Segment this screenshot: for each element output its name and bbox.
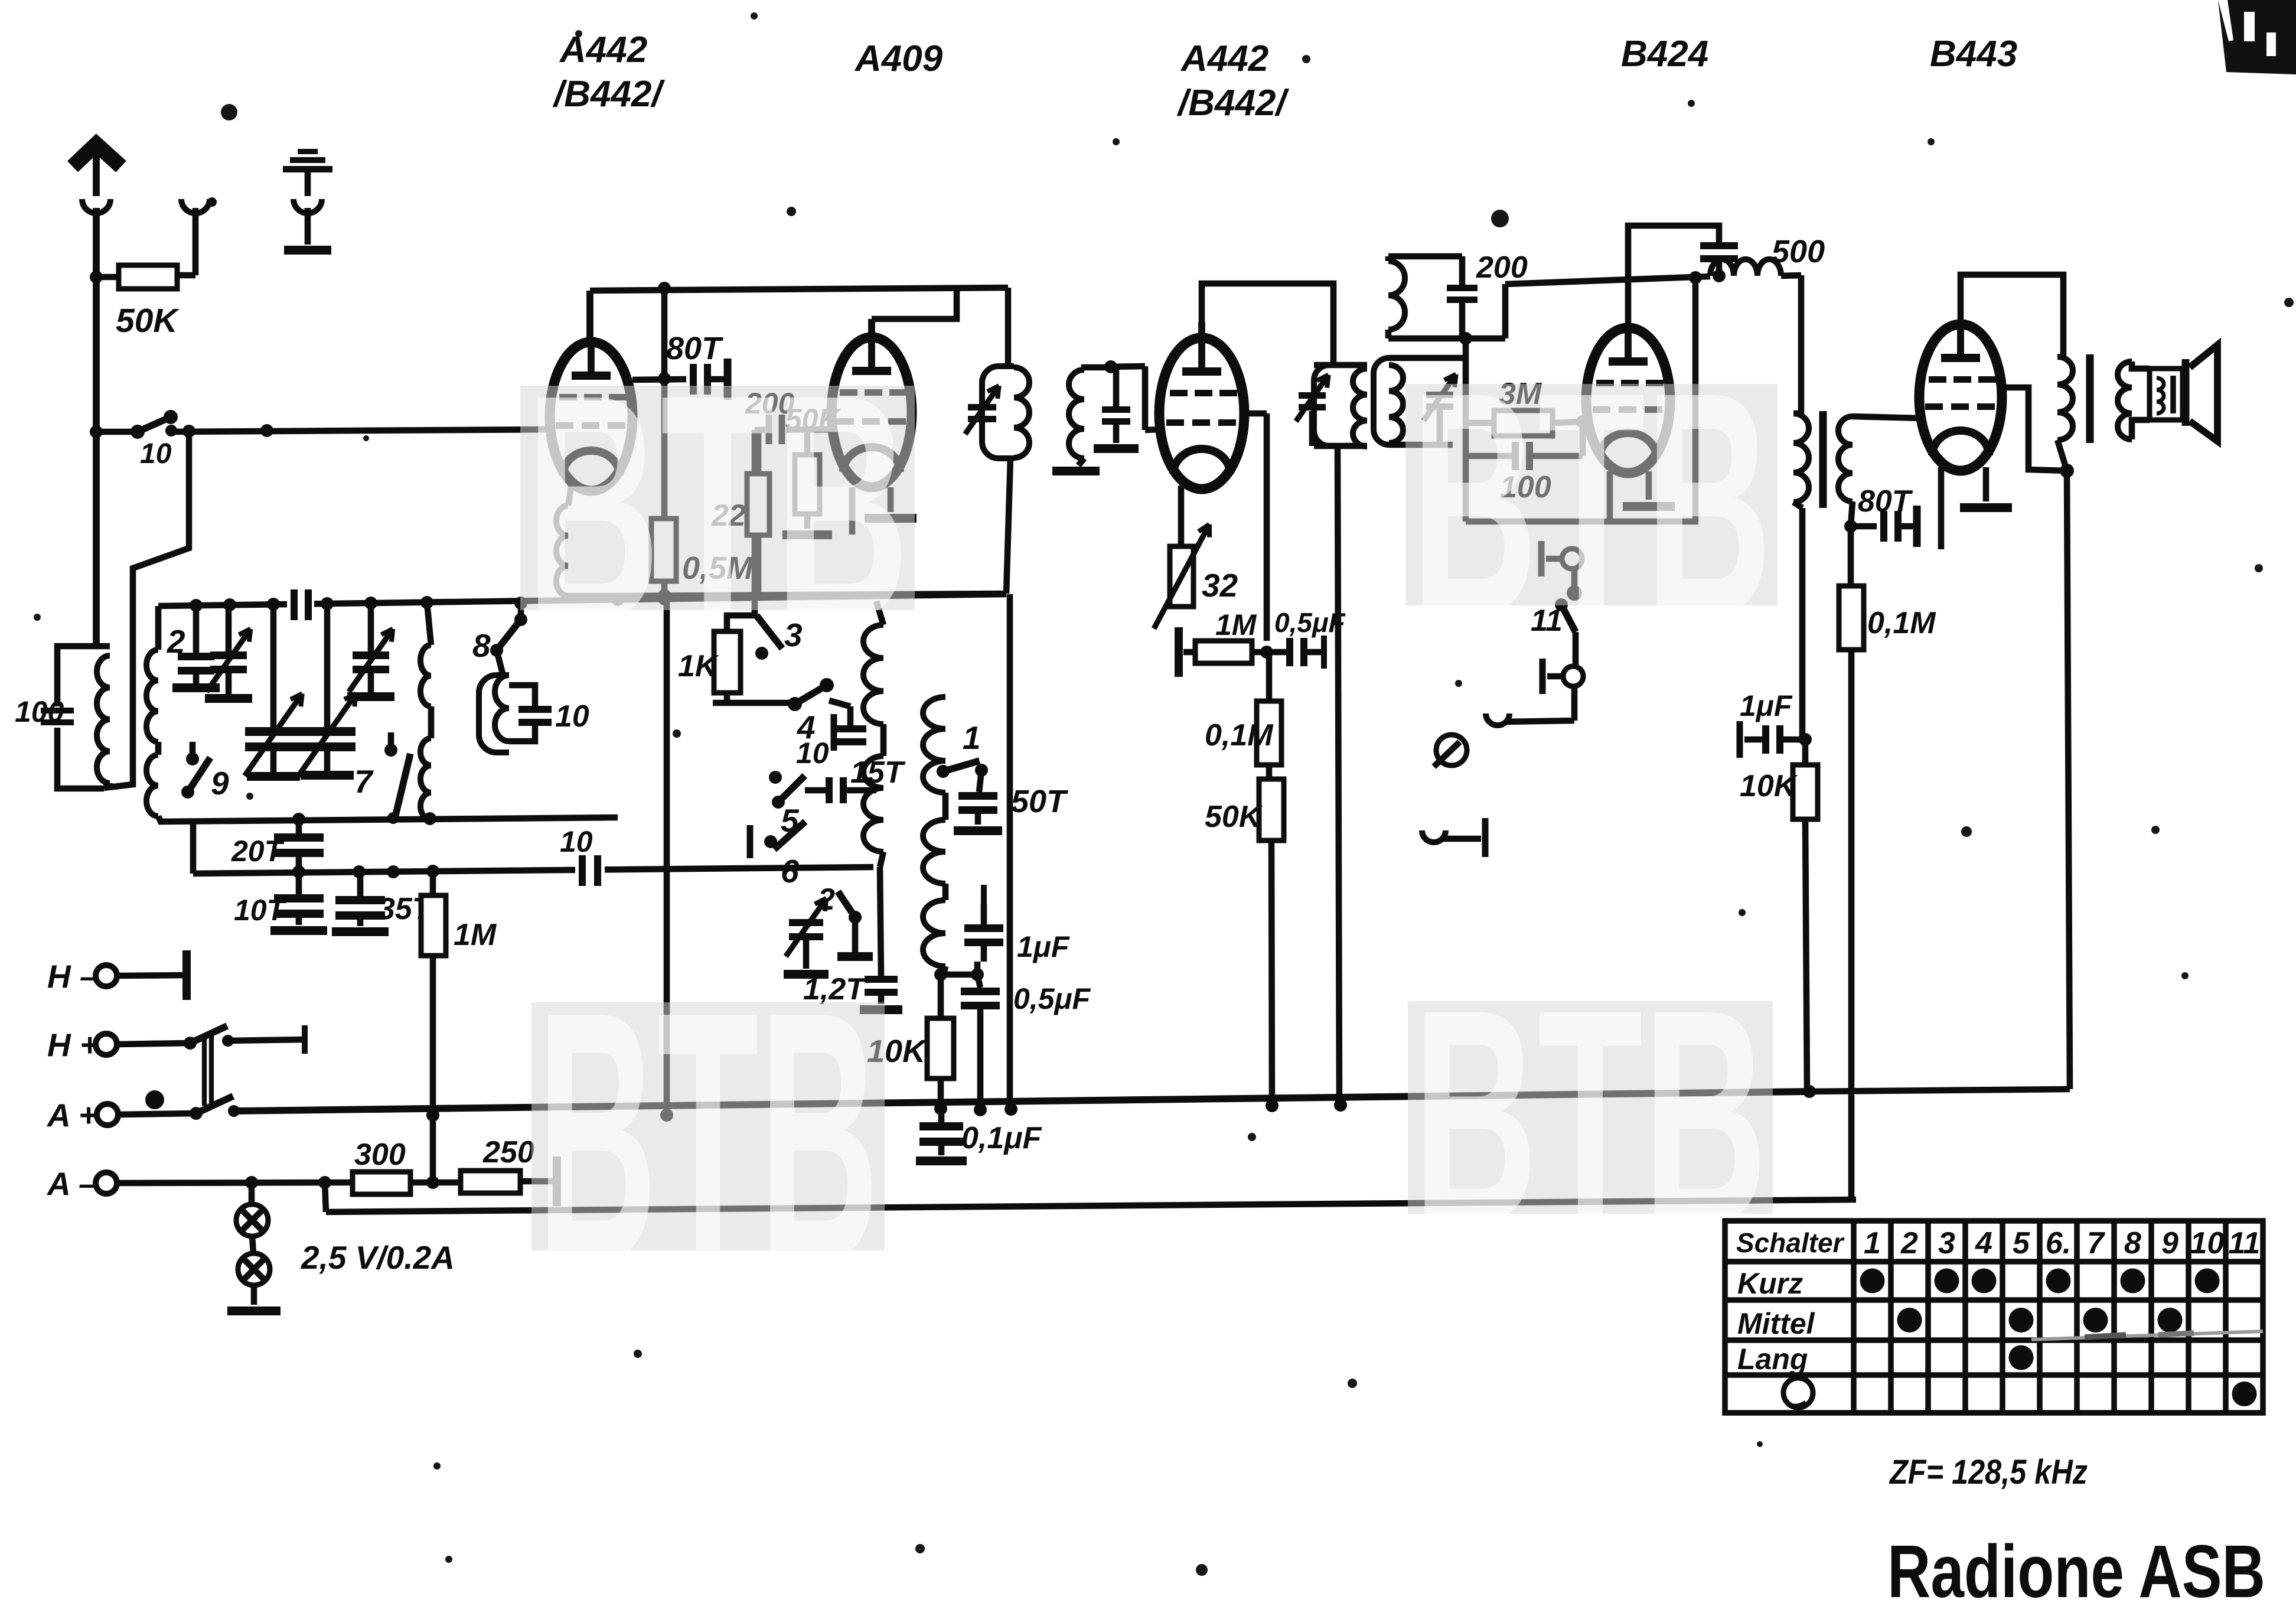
svg-text:500: 500 [1772,234,1825,269]
wire gray bus B424 [1466,519,1698,525]
capacitor 0,5uF bias [1286,638,1293,666]
resistor 50K antenna [90,271,103,284]
capacitor 80T tone [1851,523,1877,530]
svg-text:10K: 10K [1740,769,1798,803]
svg-text:A +: A + [46,1097,97,1133]
lamp 1 [249,1182,255,1204]
table dots Lang [2009,1345,2034,1370]
junction bus 20T [193,867,873,874]
svg-text:80T: 80T [1858,484,1913,519]
capacitor 0,5uF osc [977,975,980,988]
svg-text:20T: 20T [231,835,285,868]
table phone symbol [1783,1378,1813,1408]
switch 6 [747,825,754,858]
resistor 1M bias [1175,627,1183,677]
svg-text:2: 2 [817,882,835,917]
svg-text:100: 100 [15,695,64,728]
capacitor 1,2T [880,867,881,976]
svg-text:A409: A409 [854,38,943,79]
svg-text:6.: 6. [2046,1226,2071,1260]
coupling coil with capacitor 10 [479,675,509,752]
trimmer capacitor antenna [226,605,232,651]
antenna secondary coil [146,650,158,742]
V3 cathode [1178,486,1185,546]
svg-text:0,1M: 0,1M [1867,606,1936,640]
output transformer [2057,357,2073,440]
capacitor 50T [979,770,981,792]
V2 cathode ground [888,487,894,512]
svg-text:11: 11 [1531,604,1563,638]
lamp 2 [252,1236,253,1253]
oscillator coil A [863,625,883,724]
wire osc switch row [713,700,795,706]
svg-text:9: 9 [2161,1226,2178,1260]
capacitor 1uF output [1737,721,1743,758]
paper speckles [221,104,237,120]
svg-text:50K: 50K [116,302,180,340]
switch table [1725,1221,2263,1413]
variable capacitor gang 1 [270,604,277,727]
capacitor 20T [296,819,302,833]
svg-text:200: 200 [1476,250,1528,285]
svg-text:9: 9 [211,765,229,802]
resistor 0,5M [651,519,676,581]
switch 11 and pickup jacks [1538,541,1545,576]
svg-text:10: 10 [140,438,172,470]
switch 1 [937,765,950,778]
svg-text:1: 1 [1864,1226,1881,1260]
svg-text:2: 2 [1900,1226,1918,1260]
svg-text:11: 11 [2229,1226,2261,1260]
wire IF2 secondary to vertical [1453,355,1466,361]
tube V1 A442 [550,342,632,491]
tube V4 B424 [1586,328,1670,473]
tube V2 A409 [831,337,912,487]
jack pair lower [1422,830,1446,842]
wire V5 plate top [1961,275,2063,357]
wire osc coil bottom node [944,972,977,978]
svg-text:2,5 V/0.2A: 2,5 V/0.2A [301,1239,455,1276]
resistor 50K AVC [1259,779,1284,840]
svg-text:0,5μF: 0,5μF [1274,607,1346,638]
wire V4 grid [1583,419,1587,425]
capacitor 35T [357,872,364,896]
resistor 50K screen [795,455,820,514]
wire antenna down to switch node [93,277,100,434]
svg-text:1M: 1M [1215,608,1257,641]
wire B+ rail right [1502,284,1509,338]
series capacitor in tuner bus [287,588,314,621]
double pole link [202,1035,207,1106]
svg-text:7: 7 [2087,1226,2105,1260]
resistor 1M vertical [430,871,436,895]
trimmer capacitor osc [368,603,374,651]
V5 cathode ground [1983,467,1990,501]
switch 9 [186,752,199,765]
svg-text:Schalter: Schalter [1736,1227,1845,1258]
svg-text:300: 300 [354,1138,406,1172]
speaker [2132,361,2150,369]
variable capacitor gang 2 [324,604,331,727]
resistor 300 [353,1172,410,1194]
cathode coil V1 [568,483,572,506]
svg-text:3: 3 [784,617,803,653]
svg-text:10: 10 [2190,1226,2225,1260]
svg-text:10: 10 [560,825,593,858]
svg-text:6: 6 [781,853,799,890]
svg-text:H –: H – [47,958,98,995]
svg-text:/B442/: /B442/ [552,74,665,115]
svg-text:32: 32 [1202,567,1238,604]
wire bus from switch 10 to tube V1 grid [96,429,138,435]
svg-text:50K: 50K [1205,800,1263,834]
svg-text:A442: A442 [559,30,647,70]
series capacitor 10 in bus [575,854,605,887]
tube V5 B443 [1919,324,2002,471]
trimmer IF1 secondary [1102,406,1130,413]
table smudge [2031,1331,2263,1340]
wire V4 screen line [1692,278,1699,522]
svg-text:Radione ASB: Radione ASB [1887,1530,2265,1613]
oscillator coil on box right [420,645,431,706]
switch 7 [384,744,397,757]
wire AF sec to V5 grid [1853,416,1920,418]
svg-text:1M: 1M [454,918,497,952]
table dot phone row [2232,1382,2257,1406]
IF transformer 1 secondary [1069,370,1084,458]
switch 3 [756,615,782,649]
svg-text:H +: H + [47,1027,99,1063]
svg-text:A442: A442 [1180,38,1268,79]
wire V3 plate to IF2 primary [1202,284,1333,365]
wire V2 grid with capacitor 200 [755,429,833,430]
logo stamp top right [2218,0,2296,74]
wire bias bus lower [325,1182,326,1212]
ground lamp [251,1285,257,1305]
capacitor 100 grid [1466,453,1512,460]
svg-text:10: 10 [796,737,829,770]
wire 50T line vertical [1007,594,1013,1109]
trimmer IF2 primary [1299,392,1326,399]
wire V5 screen to transformer bottom [1998,387,2067,471]
switch 10 mains [90,425,103,438]
capacitor 10 osc [831,714,837,751]
svg-text:4: 4 [1975,1226,1992,1260]
svg-text:1μF: 1μF [1017,930,1070,963]
svg-text:2: 2 [167,623,185,660]
wire antenna line to coil box [93,434,100,646]
trimmer IF1 primary [968,404,996,410]
capacitor 80T feedback [661,288,668,379]
switch 2 osc [789,919,823,926]
capacitor 500 [1628,226,1719,327]
svg-text:10: 10 [555,699,589,734]
resistor 0,1M grid leak [1839,586,1864,650]
wire IF1 to V3 grid [1104,360,1117,373]
svg-text:1: 1 [963,719,981,756]
svg-text:Mittel: Mittel [1737,1307,1815,1340]
svg-text:B424: B424 [1621,34,1708,74]
wire top bus B+ [590,288,1008,291]
capacitor 10T [296,872,302,894]
capacitor 200 coupling [1459,256,1466,285]
table dots Mittel [1897,1308,1922,1332]
svg-text:Lang: Lang [1737,1343,1808,1376]
svg-text:1μF: 1μF [1740,689,1793,722]
resistor 3M [1466,420,1494,426]
capacitor 2 fixed [193,605,200,653]
switch 5 [769,771,782,784]
rheostat 32 [1170,546,1193,607]
svg-text:250: 250 [482,1135,534,1169]
V4 cathode ground [1646,471,1652,500]
ground trimmer chain top [298,149,318,154]
svg-text:0,1μF: 0,1μF [961,1121,1042,1155]
svg-text:/B442/: /B442/ [1176,83,1289,123]
tuner box left side [155,606,162,650]
svg-text:5: 5 [2013,1226,2030,1260]
resistor 10K osc [938,975,944,1018]
capacitor 15T [805,787,826,794]
wire A+ bus [234,1092,1809,1111]
antenna [73,144,121,167]
IF transformer 1 primary [1005,288,1012,366]
resistor 0,1M AVC [1257,701,1281,765]
svg-text:8: 8 [2124,1226,2141,1260]
capacitor 0,1uF [938,1109,945,1122]
svg-text:Kurz: Kurz [1737,1267,1803,1300]
switch 8 [514,613,527,626]
wire speaker return down [2067,471,2070,1089]
phono input symbol [1436,735,1467,765]
antenna input transformer 100 [57,646,96,706]
svg-text:8: 8 [472,627,491,664]
oscillator coupling coil 200 [1388,253,1462,260]
svg-text:50T: 50T [1011,784,1068,819]
svg-text:80T: 80T [666,331,723,366]
AF transformer interstage [1798,275,1805,413]
wire grid return line [615,594,1006,596]
table dots Kurz [1860,1269,1885,1294]
svg-text:A –: A – [46,1165,97,1202]
trimmer IF2 [1426,392,1453,398]
wire V3 cathode bias chain [1264,413,1270,641]
wire drop to antenna coil tap [104,431,189,788]
svg-text:0,5μF: 0,5μF [1013,982,1091,1015]
svg-text:3: 3 [1938,1226,1955,1260]
resistor 22 [747,474,769,535]
wire IF2 primary to A+ bus [1338,446,1339,1105]
RF choke coil [1710,259,1781,276]
svg-text:7: 7 [354,763,374,800]
resistor 10K output [1802,739,1809,765]
svg-text:ZF= 128,5 kHz: ZF= 128,5 kHz [1889,1453,2088,1491]
svg-text:B443: B443 [1930,34,2017,74]
resistor 1K [727,615,756,631]
switch 4 [788,697,802,711]
capacitor 1uF osc [964,924,1003,932]
svg-text:10T: 10T [234,894,288,927]
svg-text:1K: 1K [678,649,719,683]
tuner top bus [158,594,1006,606]
svg-text:0,1M: 0,1M [1205,718,1274,752]
IF transformer 2 primary [1314,362,1367,369]
IF transformer 2 [1374,358,1389,445]
oscillator coil B [923,697,945,793]
tube V3 A442 [1159,338,1244,489]
resistor 250 [461,1171,520,1193]
